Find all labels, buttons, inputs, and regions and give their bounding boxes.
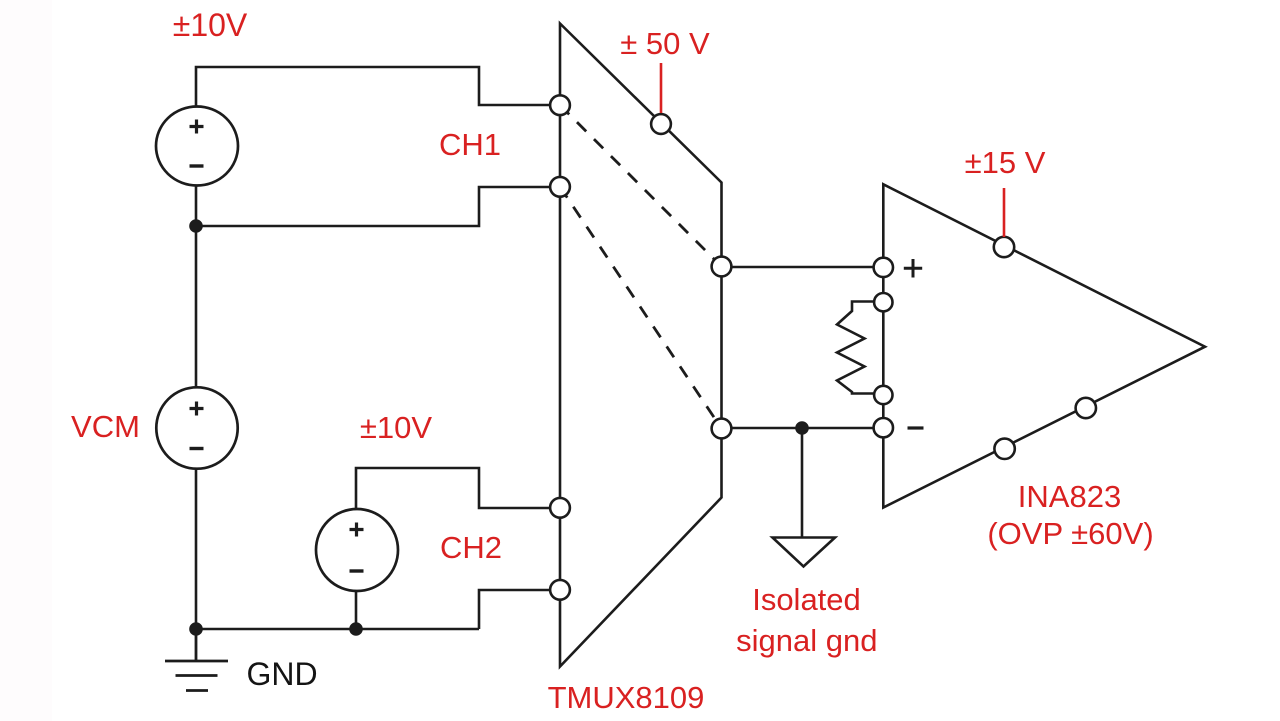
pin mux supply [651, 114, 671, 134]
wire gnd bus to CH2 lower pin [479, 590, 551, 629]
source V1 ±10V [156, 107, 238, 186]
svg-text:VCM: VCM [71, 409, 140, 444]
mux U1 TMUX8109 body [560, 24, 722, 667]
pin CH1+ [550, 95, 570, 115]
supply lead ±15V (red) [1003, 188, 1006, 237]
wire mux out+ to inamp + [732, 266, 874, 269]
wire ground bus [196, 628, 479, 631]
svg-text:TMUX8109: TMUX8109 [548, 680, 705, 715]
pin mux out+ [712, 257, 732, 277]
pin inamp + [874, 258, 893, 277]
wire V1 bottom to CH1 lower pin [196, 186, 551, 226]
pin CH2- [550, 580, 570, 600]
wire V2 top to CH2 upper pin [356, 468, 551, 510]
svg-text:Isolated: Isolated [752, 582, 861, 617]
resistor RG [837, 302, 875, 394]
dashed switch path CH1- [560, 187, 722, 429]
svg-text:INA823: INA823 [1018, 479, 1121, 514]
svg-text:±10V: ±10V [360, 410, 432, 445]
pin RG bottom [874, 386, 892, 404]
node D (isolated gnd tap) [795, 421, 809, 435]
svg-text:(OVP ±60V): (OVP ±60V) [987, 516, 1153, 551]
svg-text:GND: GND [246, 656, 317, 692]
pin RG top [874, 293, 892, 311]
wire node A to VCM top [195, 226, 198, 389]
supply lead ±50V (red) [660, 63, 663, 113]
dashed switch path CH1+ [560, 105, 722, 266]
pin inamp ref (bottom edge) [994, 439, 1014, 459]
source VCM [156, 387, 237, 468]
ground GND symbol [165, 629, 228, 691]
pin inamp V+ (top edge) [994, 237, 1014, 257]
wire node D down to isolated gnd [801, 428, 804, 537]
plus marker at inamp + input [904, 259, 922, 278]
wire V2 bottom to gnd bus [355, 591, 358, 629]
minus marker at inamp - input [908, 426, 924, 429]
pin inamp V- (bottom edge) [1076, 398, 1096, 418]
node B (gnd bus left) [189, 622, 203, 636]
wire VCM bottom to ground bus [195, 467, 198, 629]
node C (gnd bus under V2) [349, 622, 363, 636]
pin inamp - [874, 418, 893, 437]
pin CH2+ [550, 498, 570, 518]
wire V1 top to CH1 upper pin [196, 67, 551, 107]
svg-text:CH2: CH2 [440, 530, 502, 565]
svg-text:± 50 V: ± 50 V [620, 26, 710, 61]
svg-text:±10V: ±10V [173, 7, 248, 43]
node A (V1 minus junction) [189, 219, 203, 233]
pin mux out- [712, 419, 732, 439]
ground isolated signal gnd [773, 538, 836, 567]
svg-text:signal gnd: signal gnd [736, 623, 877, 658]
op-amp U2 INA823 body [883, 184, 1205, 507]
source V2 ±10V [316, 509, 398, 591]
wire mux out- to inamp - [732, 427, 874, 430]
svg-text:±15 V: ±15 V [965, 145, 1046, 180]
pin CH1- [550, 177, 570, 197]
svg-text:CH1: CH1 [439, 127, 501, 162]
